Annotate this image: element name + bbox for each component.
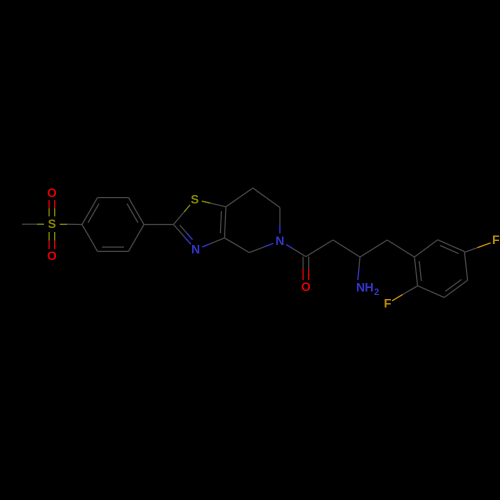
bond ring2 C2'-C3' (418, 286, 445, 298)
svg-text:2: 2 (374, 287, 379, 297)
bond C4-C3a (225, 238, 250, 253)
double bond C=O carbonyl (303, 257, 309, 281)
bond C7-C6 (253, 188, 280, 208)
atom S sulfonyl (48, 217, 56, 231)
bond CHb-NH2 (358, 257, 360, 280)
atom O sulfonyl top (47, 186, 56, 200)
bond C2'-F ortho (392, 286, 418, 301)
bond benzene C6-C1 (82, 225, 98, 252)
svg-text:O: O (301, 280, 310, 294)
bond C(carbonyl)-CH2a (306, 240, 333, 257)
atom F para (492, 233, 499, 247)
bond ring2 C1'-C2' (414, 257, 421, 286)
bond benzene C4 - thiazole C2 (144, 224, 174, 226)
atom O carbonyl (301, 280, 310, 294)
bond N5-C4 (249, 243, 273, 252)
double bond thiazole N3=C2 (174, 225, 193, 245)
atom F ortho (384, 296, 391, 310)
bond C7a-C7 (226, 188, 253, 207)
atom N5 ring (275, 234, 284, 248)
bond S-C1 (sulfonyl to benzene) (60, 223, 82, 225)
bond CHb-CH2d (360, 240, 387, 257)
bond ring2 C6'-C1' (414, 240, 437, 257)
bond benzene C3-C4 (127, 198, 144, 225)
atom S1 thiazole (191, 192, 199, 206)
svg-text:S: S (191, 192, 199, 206)
svg-text:F: F (492, 233, 499, 247)
svg-text:S: S (48, 217, 56, 231)
double bond S=O bottom (49, 232, 55, 249)
atom NH2 amine (356, 280, 379, 297)
bond benzene C5-C6 (98, 247, 129, 251)
bond benzene C4-C5 (129, 225, 145, 252)
bond C6-N5 (279, 208, 281, 234)
svg-text:F: F (384, 296, 391, 310)
bond N5-C(carbonyl) (286, 245, 306, 257)
svg-text:N: N (356, 280, 365, 294)
bond ring2 C5'-C6' (438, 240, 465, 254)
bond thiazole S1-C7a (202, 201, 226, 207)
svg-text:H: H (365, 280, 374, 294)
svg-text:N: N (275, 234, 284, 248)
svg-text:O: O (47, 186, 56, 200)
atom N3 thiazole (191, 243, 200, 257)
wire bond CH3-S (methyl to sulfonyl S) (22, 223, 44, 225)
bond CH2d-ring C1' (387, 240, 414, 257)
bond ring2 C3'-C4' (444, 280, 467, 298)
atom O sulfonyl bottom (47, 249, 56, 263)
double bond thiazole C7a=C3a (220, 207, 226, 238)
svg-text:O: O (47, 249, 56, 263)
bond benzene C1-C2 (82, 198, 99, 225)
bond benzene C2-C3 (98, 197, 129, 199)
bond thiazole C2-S1 (174, 205, 191, 225)
bond CH2a-CHb (333, 240, 360, 257)
bond thiazole C3a-N3 (202, 238, 224, 247)
bond ring2 C4'-C5' (464, 252, 467, 281)
bond C5'-F para (464, 243, 490, 252)
svg-text:N: N (191, 243, 200, 257)
double bond S=O top (49, 200, 55, 216)
